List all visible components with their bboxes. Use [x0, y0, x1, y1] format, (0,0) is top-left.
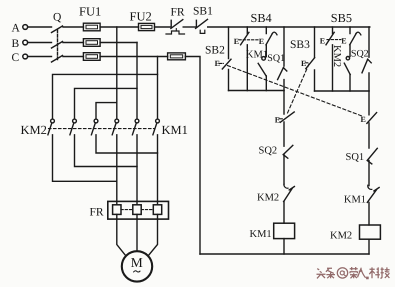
svg-text:KM1: KM1	[344, 194, 366, 205]
svg-text:C: C	[12, 52, 20, 64]
svg-text:KM2: KM2	[330, 230, 352, 241]
svg-text:KM1: KM1	[162, 123, 188, 137]
svg-text:KM1: KM1	[246, 50, 268, 61]
svg-text:SB3: SB3	[290, 39, 310, 51]
svg-text:E: E	[234, 37, 239, 46]
svg-text:SB5: SB5	[331, 11, 352, 25]
svg-text:E: E	[301, 59, 306, 68]
svg-text:A: A	[12, 23, 21, 35]
svg-text:E: E	[259, 37, 264, 46]
svg-text:KM2: KM2	[257, 193, 279, 204]
svg-text:E: E	[341, 37, 346, 46]
svg-text:SQ2: SQ2	[351, 48, 369, 59]
svg-text:Q: Q	[53, 12, 62, 24]
svg-text:E: E	[361, 115, 366, 124]
svg-text:FU1: FU1	[79, 5, 101, 19]
svg-text:FU2: FU2	[130, 10, 152, 24]
svg-text:M: M	[131, 255, 143, 270]
svg-text:KM2: KM2	[331, 45, 342, 67]
svg-text:SQ1: SQ1	[267, 53, 285, 64]
svg-text:FR: FR	[90, 207, 104, 219]
svg-text:SB1: SB1	[193, 6, 213, 18]
svg-text:SB2: SB2	[205, 45, 225, 57]
svg-text:SQ1: SQ1	[346, 152, 365, 163]
svg-text:SB4: SB4	[251, 11, 272, 25]
svg-text:KM1: KM1	[250, 229, 272, 240]
svg-text:E: E	[275, 115, 280, 124]
svg-text:E: E	[215, 59, 220, 68]
svg-text:SQ2: SQ2	[259, 146, 278, 157]
svg-text:B: B	[12, 38, 20, 50]
svg-text:E: E	[320, 37, 325, 46]
svg-text:FR: FR	[171, 7, 185, 19]
svg-text:KM2: KM2	[21, 123, 47, 137]
